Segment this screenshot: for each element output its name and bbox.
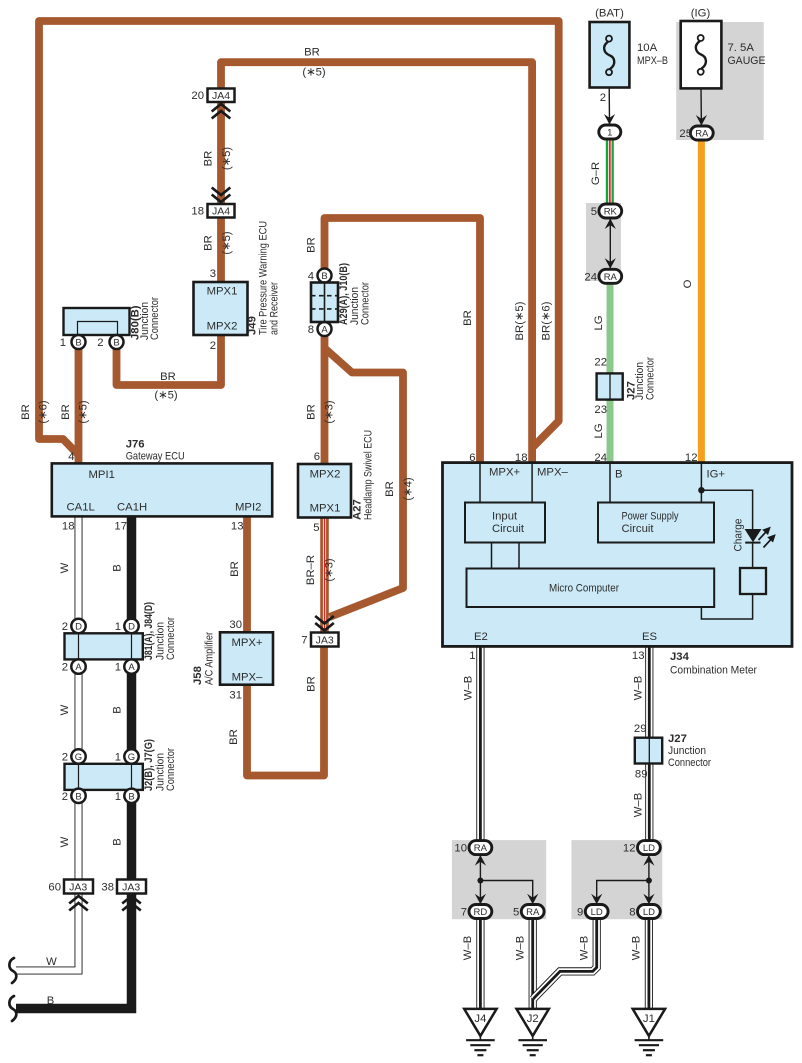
svg-text:1: 1 xyxy=(115,752,121,764)
arrow down into RD-7 xyxy=(475,894,486,905)
svg-text:RK: RK xyxy=(604,207,618,218)
wire fuse IG to RA-25 xyxy=(700,87,702,125)
svg-text:1: 1 xyxy=(469,650,475,662)
BROWN WIRES xyxy=(39,21,559,776)
svg-text:W–B: W–B xyxy=(633,793,645,817)
svg-text:2: 2 xyxy=(62,752,68,764)
svg-text:Connector: Connector xyxy=(149,297,161,340)
svg-text:B: B xyxy=(112,564,124,572)
wire W-B J34 ES to LD-12 xyxy=(645,644,653,842)
svg-text:12: 12 xyxy=(685,452,698,464)
svg-text:MPX1: MPX1 xyxy=(310,503,341,515)
wire B J76 CA1H to JA3-38 xyxy=(127,514,137,881)
oval terminal LD-8 xyxy=(629,905,660,919)
ECU A27 Headlamp Swivel xyxy=(298,430,375,534)
arrow down into LD-9 xyxy=(591,894,602,905)
wire BR(*6) J76 MPI1 to J34 MPX- xyxy=(39,21,559,456)
svg-text:BR(∗5): BR(∗5) xyxy=(514,301,526,340)
svg-text:6: 6 xyxy=(469,452,475,464)
wire BR-R A27 MPX1 to JA3-7 xyxy=(320,516,329,633)
svg-text:24: 24 xyxy=(584,271,597,283)
svg-text:1: 1 xyxy=(115,621,121,633)
svg-text:7. 5A: 7. 5A xyxy=(728,42,755,54)
svg-text:(∗5): (∗5) xyxy=(302,67,326,79)
oval terminal RA-24 xyxy=(584,269,621,283)
svg-text:Connector: Connector xyxy=(360,282,372,325)
wire BR(*5) J80 pin1 to J76 MPI1 xyxy=(75,346,83,466)
chevrons into JA3-7 xyxy=(315,616,334,631)
svg-text:Headlamp Swivel ECU: Headlamp Swivel ECU xyxy=(363,430,375,520)
junction connector J80(B) xyxy=(60,297,161,349)
ground J2 xyxy=(517,1009,549,1055)
svg-text:W: W xyxy=(59,836,71,847)
wire LG RA-24 to J34 pin24 xyxy=(607,282,614,466)
svg-text:20: 20 xyxy=(191,90,204,102)
svg-text:JA3: JA3 xyxy=(316,635,334,647)
arrow up into RK-5 xyxy=(605,219,616,230)
svg-text:W–B: W–B xyxy=(631,936,643,960)
arrow down into LD-8 xyxy=(643,894,654,905)
svg-text:W: W xyxy=(59,562,71,573)
svg-text:17: 17 xyxy=(114,521,127,533)
power supply circuit box xyxy=(598,503,714,543)
svg-text:30: 30 xyxy=(229,619,242,631)
svg-text:38: 38 xyxy=(101,882,114,894)
arrow into terminal 1 xyxy=(604,114,615,125)
svg-text:5: 5 xyxy=(313,522,319,534)
svg-text:BR–R: BR–R xyxy=(305,555,317,585)
svg-text:12: 12 xyxy=(623,843,636,855)
arrow up into RA-10 xyxy=(475,855,486,866)
svg-text:10: 10 xyxy=(454,843,467,855)
wire W-B RD-7 to ground J4 xyxy=(476,917,484,1010)
svg-text:RD: RD xyxy=(474,907,488,918)
wire W JA3-60 to break xyxy=(16,893,79,971)
svg-text:25: 25 xyxy=(679,128,692,140)
svg-text:13: 13 xyxy=(231,521,244,533)
svg-text:2: 2 xyxy=(62,621,68,633)
svg-text:18: 18 xyxy=(515,452,528,464)
svg-text:Power Supply: Power Supply xyxy=(622,511,679,523)
wire BR J76 MPI2 to J58 MPX+ xyxy=(243,514,251,634)
svg-text:BR: BR xyxy=(306,237,318,253)
W-B WIRES xyxy=(480,644,649,1010)
charge LED xyxy=(733,519,776,552)
svg-text:A: A xyxy=(75,662,82,673)
gray panel IG fuse xyxy=(676,22,764,140)
svg-text:Connector: Connector xyxy=(668,757,711,769)
svg-text:D: D xyxy=(128,622,135,633)
svg-text:JA3: JA3 xyxy=(69,882,87,894)
svg-text:RA: RA xyxy=(604,272,618,283)
meter J34 Combination Meter xyxy=(443,463,793,647)
svg-text:CA1L: CA1L xyxy=(67,502,95,514)
svg-text:(∗5): (∗5) xyxy=(78,400,90,424)
svg-text:G: G xyxy=(75,752,82,763)
svg-text:7: 7 xyxy=(461,907,467,919)
svg-text:2: 2 xyxy=(97,337,103,349)
svg-text:LD: LD xyxy=(591,907,603,918)
oval terminal LD-9 xyxy=(577,905,608,919)
wire BR(*5) J49 pin2 to J80 pin2 xyxy=(117,333,222,385)
svg-text:J4: J4 xyxy=(474,1013,486,1025)
svg-text:Circuit: Circuit xyxy=(492,523,525,535)
arrow down into RA-24 xyxy=(605,258,616,269)
svg-text:JA4: JA4 xyxy=(212,90,230,102)
svg-text:3: 3 xyxy=(210,268,216,280)
svg-text:MPX2: MPX2 xyxy=(207,321,238,333)
svg-text:31: 31 xyxy=(229,690,242,702)
svg-text:A: A xyxy=(128,662,135,673)
svg-text:2: 2 xyxy=(210,340,216,352)
svg-text:J76: J76 xyxy=(126,439,145,451)
svg-text:D: D xyxy=(75,622,82,633)
svg-text:W–B: W–B xyxy=(633,676,645,700)
wire BR J58 MPX- to JA3-7 xyxy=(247,645,324,776)
svg-text:E2: E2 xyxy=(474,631,488,643)
svg-text:8: 8 xyxy=(308,324,314,336)
chevrons into JA3-60 xyxy=(69,896,88,911)
svg-text:RA: RA xyxy=(526,907,540,918)
svg-text:O: O xyxy=(682,279,694,288)
wire B JA3-38 to break xyxy=(16,893,132,1009)
svg-text:Input: Input xyxy=(492,511,518,523)
svg-text:BR: BR xyxy=(306,676,318,692)
svg-text:MPX+: MPX+ xyxy=(489,467,520,479)
svg-text:CA1H: CA1H xyxy=(117,502,147,514)
chevrons into JA4-20 xyxy=(212,104,231,119)
svg-text:BR: BR xyxy=(304,47,320,59)
break squiggle W wire xyxy=(9,958,16,983)
LEFT W WIRE (white) xyxy=(16,514,79,971)
junction dot left panel xyxy=(477,878,483,884)
svg-text:BR: BR xyxy=(229,561,241,577)
svg-text:BR(∗6): BR(∗6) xyxy=(541,301,553,340)
break squiggle B wire xyxy=(9,996,16,1021)
fuse 7.5A GAUGE (IG) xyxy=(681,8,766,89)
svg-text:LD: LD xyxy=(643,907,655,918)
connector JA4 pin 20 xyxy=(191,89,234,103)
svg-text:BR: BR xyxy=(60,404,72,420)
LEFT B WIRE (black) xyxy=(16,514,132,1009)
svg-text:W–B: W–B xyxy=(462,936,474,960)
svg-text:MPX–: MPX– xyxy=(537,467,568,479)
svg-text:Connector: Connector xyxy=(645,357,657,400)
svg-text:B: B xyxy=(615,469,623,481)
svg-text:(∗5): (∗5) xyxy=(221,231,233,255)
svg-text:A: A xyxy=(321,325,328,336)
svg-text:J2: J2 xyxy=(527,1013,539,1025)
svg-text:10A: 10A xyxy=(637,42,658,54)
svg-text:B: B xyxy=(47,995,55,1007)
svg-text:W–B: W–B xyxy=(579,936,591,960)
arrow up into LD-12 xyxy=(643,855,654,866)
svg-text:22: 22 xyxy=(594,357,607,369)
svg-text:BR: BR xyxy=(462,310,474,326)
svg-text:18: 18 xyxy=(62,521,75,533)
svg-text:1: 1 xyxy=(115,791,121,803)
svg-text:BR: BR xyxy=(203,235,215,251)
wire BR between JA4-20 and JA4-18 xyxy=(217,100,225,206)
svg-text:(∗3): (∗3) xyxy=(324,558,336,582)
svg-text:MPI1: MPI1 xyxy=(89,469,115,481)
svg-text:J27: J27 xyxy=(668,733,687,745)
chevrons into JA3-38 xyxy=(122,896,141,911)
wire W-B LD-8 to ground J1 xyxy=(645,917,653,1010)
svg-text:2: 2 xyxy=(600,92,606,104)
svg-text:J81(A), J84(D): J81(A), J84(D) xyxy=(143,602,155,660)
svg-text:G: G xyxy=(128,752,135,763)
svg-text:Gateway ECU: Gateway ECU xyxy=(126,451,185,463)
svg-text:8: 8 xyxy=(629,907,635,919)
svg-text:2: 2 xyxy=(62,662,68,674)
junction connector J2(B), J7(G) xyxy=(62,739,177,803)
oval terminal RA-5 xyxy=(513,905,544,919)
junction dot IG+ xyxy=(698,487,704,493)
svg-text:24: 24 xyxy=(594,452,607,464)
wire G-R fuse to RK xyxy=(606,138,614,205)
micro computer box xyxy=(467,569,715,608)
svg-text:(∗6): (∗6) xyxy=(38,400,50,424)
svg-text:J1: J1 xyxy=(643,1013,655,1025)
svg-text:ES: ES xyxy=(642,631,658,643)
oval terminal RA-10 xyxy=(454,841,491,855)
svg-text:89: 89 xyxy=(635,769,648,781)
svg-text:Combination Meter: Combination Meter xyxy=(670,665,757,677)
gray panel RK/RA connectors xyxy=(586,203,621,281)
svg-text:(∗4): (∗4) xyxy=(403,477,415,501)
svg-text:5: 5 xyxy=(591,206,597,218)
svg-text:LD: LD xyxy=(643,843,655,854)
svg-text:BR: BR xyxy=(20,404,32,420)
junction connector A29(A), J10(B) xyxy=(308,263,372,336)
svg-text:W: W xyxy=(46,956,57,968)
gray panel bottom left xyxy=(452,840,546,919)
svg-text:J2(B), J7(G): J2(B), J7(G) xyxy=(143,739,155,791)
svg-text:Connector: Connector xyxy=(165,748,177,791)
wire BR A29 pinB to J34 MPX+ xyxy=(325,218,481,466)
wire O RA-25 to J34 pin12 xyxy=(698,139,705,466)
wire RK to RA-24 xyxy=(609,218,611,268)
svg-text:6: 6 xyxy=(314,451,320,463)
wire fuse BAT to circle 1 xyxy=(608,87,610,124)
svg-text:18: 18 xyxy=(191,206,204,218)
oval terminal RK-5 xyxy=(591,204,622,218)
svg-text:IG+: IG+ xyxy=(707,469,726,481)
svg-text:4: 4 xyxy=(68,451,74,463)
svg-text:(IG): (IG) xyxy=(691,8,711,20)
svg-text:MPX2: MPX2 xyxy=(310,469,341,481)
svg-text:J34: J34 xyxy=(670,651,690,663)
connector JA4 pin 18 xyxy=(191,204,234,218)
svg-text:29: 29 xyxy=(634,723,647,735)
svg-text:60: 60 xyxy=(48,882,61,894)
svg-text:B: B xyxy=(75,338,81,349)
wire W-B RA-5 to ground J2 xyxy=(529,917,537,1010)
ground J4 xyxy=(464,1009,496,1055)
gray panel bottom right xyxy=(571,840,662,919)
wire BR JA4-18 to J49 pin3 xyxy=(217,216,225,284)
svg-text:BR: BR xyxy=(306,404,318,420)
svg-text:LG: LG xyxy=(593,423,605,438)
ECU J76 Gateway xyxy=(52,439,272,533)
svg-text:MPI2: MPI2 xyxy=(235,502,261,514)
chevrons into JA4-18 xyxy=(212,188,231,203)
svg-text:5: 5 xyxy=(513,907,519,919)
connector JA3 pin 38 xyxy=(101,880,146,894)
svg-text:MPX+: MPX+ xyxy=(231,637,262,649)
svg-text:1: 1 xyxy=(607,128,612,139)
svg-text:J58: J58 xyxy=(192,666,204,685)
svg-text:W–B: W–B xyxy=(463,676,475,700)
svg-text:BR: BR xyxy=(160,371,176,383)
junction connector J81(A), J84(D) xyxy=(62,602,177,674)
svg-text:G–R: G–R xyxy=(590,162,602,185)
svg-text:1: 1 xyxy=(60,337,66,349)
svg-text:7: 7 xyxy=(301,635,307,647)
svg-text:W: W xyxy=(59,704,71,715)
svg-text:Charge: Charge xyxy=(733,519,745,552)
svg-text:Connector: Connector xyxy=(165,617,177,660)
wire W-B LD-9 jog to ground J2 xyxy=(534,917,597,999)
connector JA3 pin 7 xyxy=(301,633,338,647)
ECU J49 Tire Pressure Warning xyxy=(194,221,281,352)
svg-text:BR: BR xyxy=(228,729,240,745)
svg-text:(∗5): (∗5) xyxy=(221,147,233,171)
svg-text:RA: RA xyxy=(695,129,709,140)
wire BR(*5) JA4-20 to J34 MPX- xyxy=(221,62,532,466)
input circuit box xyxy=(465,503,545,543)
svg-text:MPX–B: MPX–B xyxy=(637,55,668,67)
svg-text:(∗5): (∗5) xyxy=(154,390,178,402)
svg-text:JA3: JA3 xyxy=(122,882,140,894)
svg-text:(BAT): (BAT) xyxy=(595,8,624,20)
svg-text:B: B xyxy=(112,838,124,846)
wire W-B J34 E2 to RA-10 xyxy=(476,644,484,842)
oval terminal RD-7 xyxy=(461,905,492,919)
arrow into RA-25 xyxy=(696,115,707,126)
svg-text:B: B xyxy=(321,271,327,282)
svg-text:B: B xyxy=(113,338,119,349)
svg-text:B: B xyxy=(75,791,81,802)
amplifier J58 A/C xyxy=(192,619,273,702)
svg-text:B: B xyxy=(128,791,134,802)
oval terminal LD-12 xyxy=(623,841,660,855)
svg-text:1: 1 xyxy=(115,662,121,674)
wire LD-12 to LD-9 / LD-8 xyxy=(597,855,649,904)
oval terminal 1 xyxy=(599,125,621,139)
oval terminal RA-25 xyxy=(679,126,713,140)
svg-text:Circuit: Circuit xyxy=(622,523,655,535)
svg-text:2: 2 xyxy=(62,791,68,803)
svg-text:BR: BR xyxy=(203,151,215,167)
svg-text:JA4: JA4 xyxy=(212,206,230,218)
wire W J76 CA1L to JA3-60 xyxy=(75,514,83,881)
svg-text:23: 23 xyxy=(594,404,607,416)
svg-text:LG: LG xyxy=(593,315,605,330)
svg-text:4: 4 xyxy=(308,271,314,283)
svg-text:Junction: Junction xyxy=(668,745,706,757)
svg-text:MPX1: MPX1 xyxy=(207,286,238,298)
svg-text:13: 13 xyxy=(632,650,645,662)
fuse 10A MPX-B (BAT) xyxy=(590,8,668,105)
junction connector J27 (29/89) xyxy=(634,723,711,781)
THIN BLACK LINKS xyxy=(480,87,701,904)
svg-text:RA: RA xyxy=(474,843,488,854)
svg-text:(∗3): (∗3) xyxy=(324,400,336,424)
svg-text:GAUGE: GAUGE xyxy=(728,55,766,67)
svg-text:BR: BR xyxy=(384,481,396,497)
junction dot right panel xyxy=(646,878,652,884)
junction connector J27 (22/23) xyxy=(594,357,656,417)
internal pin lines J34 xyxy=(480,464,753,619)
svg-text:B: B xyxy=(112,706,124,714)
connector JA3 pin 60 xyxy=(48,880,93,894)
wire BR(*4) branch A29 to JA3-7 xyxy=(326,349,404,617)
resistor square box xyxy=(740,568,766,594)
svg-text:9: 9 xyxy=(577,907,583,919)
svg-text:W–B: W–B xyxy=(515,936,527,960)
svg-text:MPX–: MPX– xyxy=(232,672,263,684)
arrow down into RA-5 xyxy=(527,894,538,905)
wire RA-10 to RD-7 / RA-5 xyxy=(480,855,532,904)
svg-text:Micro Computer: Micro Computer xyxy=(549,583,619,595)
wire BR(*3) A29 pinA to A27 MPX2 xyxy=(321,334,329,466)
svg-text:A/C Amplifier: A/C Amplifier xyxy=(204,632,216,685)
svg-text:and Receiver: and Receiver xyxy=(269,282,281,335)
ground J1 xyxy=(633,1009,665,1055)
